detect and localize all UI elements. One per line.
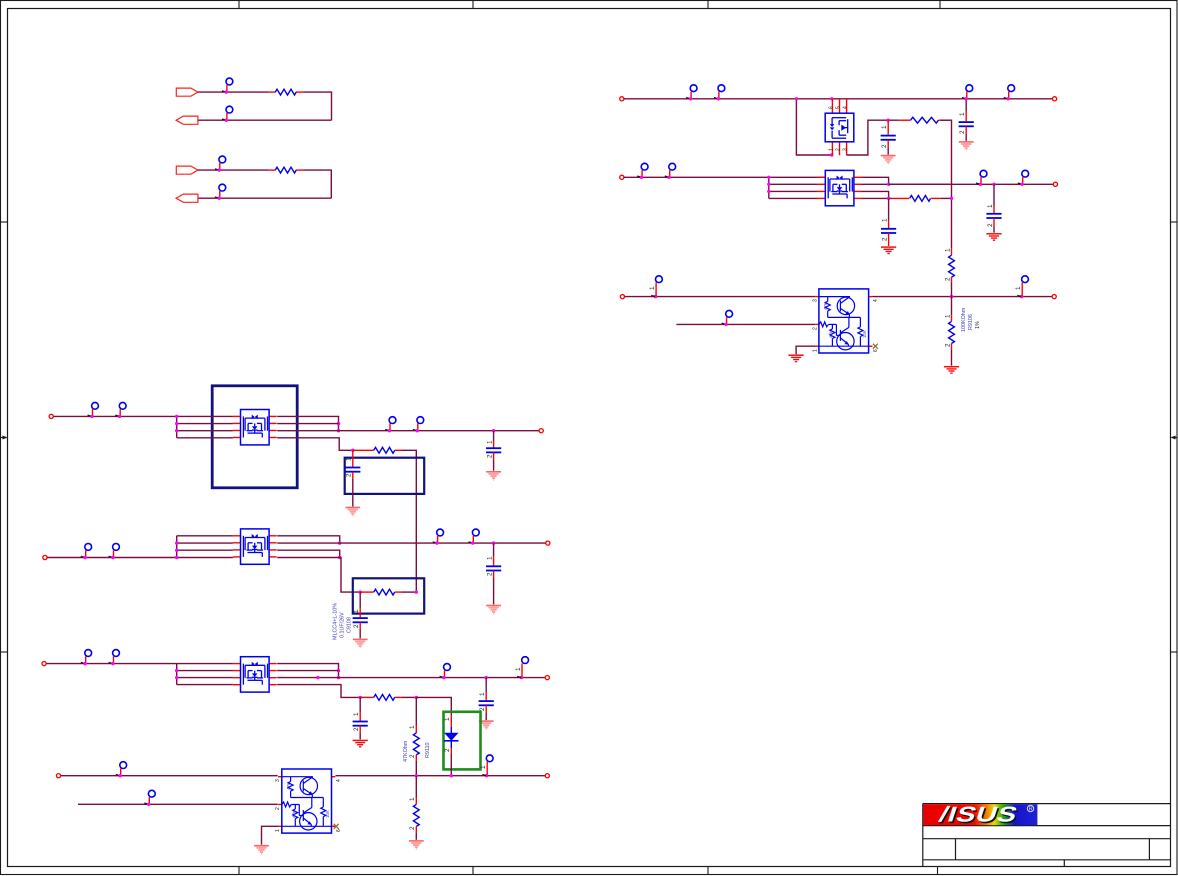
capacitor CC stub 1 — [485, 678, 487, 692]
wire loop2 bottom — [198, 197, 331, 199]
svg-text:6: 6 — [829, 106, 835, 109]
capacitor CC2 — [353, 722, 368, 726]
svg-text:C9108: C9108 — [346, 617, 352, 633]
navy highlight box 2 — [345, 458, 425, 494]
port P5 — [620, 295, 624, 299]
ground (pink) — [881, 156, 896, 164]
mosfet U1 (vertical package) — [825, 99, 854, 155]
svg-text:R9106: R9106 — [968, 314, 974, 330]
test point — [385, 417, 396, 433]
svg-text:3: 3 — [812, 299, 818, 302]
svg-text:1: 1 — [944, 248, 951, 252]
junction column + bus wires — [177, 416, 233, 437]
capacitor CA2 stub 1 — [352, 450, 354, 467]
tick bottom 2 — [472, 867, 474, 875]
svg-text:47K: 47K — [823, 302, 828, 310]
test point — [440, 664, 451, 680]
junction — [316, 676, 319, 679]
test point — [962, 85, 973, 101]
resistor RC — [374, 695, 395, 701]
junction at mosfet top pin — [830, 97, 833, 100]
tick top 2 — [472, 1, 474, 9]
tick bottom 3 — [707, 867, 709, 875]
wire row3-row4 join right — [862, 191, 893, 198]
svg-text:2: 2 — [353, 727, 360, 731]
svg-text:10K: 10K — [862, 330, 867, 338]
capacitor C9108 — [353, 618, 368, 622]
svg-text:2: 2 — [487, 572, 494, 576]
connector arrow out (loop2) — [176, 166, 198, 174]
svg-text:2: 2 — [882, 237, 889, 241]
transistor pair U3 — [815, 289, 873, 353]
wire row2 right — [277, 423, 338, 425]
resistor R9106a stub 2 + wire — [951, 277, 953, 283]
svg-text:3: 3 — [275, 779, 281, 782]
mosfet UC (horizontal package) — [233, 657, 277, 692]
big navy highlight box — [212, 386, 297, 488]
resistor R9110 stub 2 — [415, 755, 417, 761]
svg-text:2: 2 — [409, 826, 416, 830]
mosfet UA (horizontal package) — [233, 410, 277, 445]
connector arrow out (loop1) — [176, 88, 198, 96]
junction gate cap — [359, 696, 362, 699]
resistor RB — [374, 589, 395, 595]
junction column + bus wires — [177, 664, 233, 685]
test point — [109, 544, 120, 560]
resistor R1 — [911, 117, 939, 123]
svg-text:47K: 47K — [291, 810, 296, 818]
test point loop2 bottom — [215, 184, 226, 200]
wire loop1 top — [198, 92, 332, 120]
junction R9110 — [415, 774, 418, 777]
capacitor C4 stub 2 — [993, 218, 995, 227]
gate bus wire to diode branch — [416, 697, 451, 715]
wire base input — [676, 323, 815, 325]
test point — [433, 529, 444, 545]
svg-text:R: R — [1029, 807, 1033, 813]
pin numbers — [812, 299, 879, 352]
diode D9101 stub 1 — [450, 715, 452, 726]
capacitor C3 stub 1 — [888, 198, 890, 220]
wire pin4 output — [872, 296, 1052, 298]
tick right 1 — [1171, 221, 1178, 223]
test point — [144, 790, 155, 806]
svg-text:47K: 47K — [829, 330, 834, 338]
capacitor C1 stub 1 — [887, 120, 889, 134]
ground (pink) — [479, 721, 494, 729]
resistor loop2 — [275, 167, 296, 173]
test point — [88, 402, 99, 418]
wire pin4 output — [336, 775, 546, 777]
svg-text:6: 6 — [336, 829, 342, 832]
junction column + bus wires — [769, 177, 818, 198]
wire row2 output — [277, 542, 545, 544]
svg-text:2: 2 — [346, 473, 353, 477]
junction diode — [450, 774, 453, 777]
capacitor C1 stub 2 — [887, 140, 889, 148]
svg-text:2: 2 — [881, 144, 888, 148]
connector arrow in (loop2) — [176, 194, 198, 202]
junction gate cap — [351, 449, 354, 452]
capacitor C2 stub 1 — [965, 99, 967, 111]
mosfet U2 (horizontal package) — [818, 170, 862, 205]
test point — [976, 170, 987, 186]
test point loop2 top — [215, 156, 226, 172]
capacitor C1 — [881, 136, 896, 140]
wire to gate bus — [941, 197, 952, 199]
wire to gate bus junction — [402, 696, 416, 698]
test point loop1 top — [222, 78, 233, 94]
svg-text:1: 1 — [1015, 286, 1022, 290]
wire row3 input — [625, 296, 816, 298]
svg-text:2: 2 — [812, 327, 818, 330]
test point — [665, 163, 676, 179]
capacitor C9108 stub 2 — [359, 622, 361, 630]
capacitor C9108 stub 1 — [359, 592, 361, 608]
ground (pink) — [345, 508, 360, 516]
capacitor CA — [486, 448, 501, 452]
wire row2 right — [277, 670, 338, 672]
center arrow right — [1171, 436, 1178, 440]
junction gate chain — [950, 295, 953, 298]
svg-text:2: 2 — [987, 223, 994, 227]
svg-text:1: 1 — [444, 717, 451, 721]
tick bottom 1 — [238, 867, 240, 875]
no-connect X on pin6 — [334, 824, 339, 829]
wire row1-row2 join right — [862, 177, 952, 184]
resistor R9110 stub 1 — [415, 697, 417, 725]
capacitor CC stub 2 — [485, 705, 487, 713]
svg-text:1: 1 — [479, 692, 486, 696]
svg-text:1: 1 — [346, 457, 353, 461]
port PC — [42, 662, 46, 666]
resistor RC leads — [360, 696, 374, 698]
resistor R bottom stub 1 — [415, 776, 417, 798]
transistor pair U4 — [278, 769, 336, 833]
resistor loop1 leads — [269, 91, 276, 93]
wire to gate bus (long vertical) — [402, 450, 416, 592]
svg-text:1: 1 — [649, 286, 656, 290]
ground (pink) — [486, 472, 501, 480]
capacitor CA2 — [345, 468, 360, 472]
svg-text:2: 2 — [487, 454, 494, 458]
svg-text:4: 4 — [843, 106, 849, 109]
resistor RA — [374, 447, 395, 453]
wire to gate bus — [402, 591, 416, 593]
capacitor CA stub 2 — [493, 453, 495, 461]
wire rowA input — [53, 415, 233, 417]
tick top 1 — [238, 1, 240, 9]
svg-text:1: 1 — [409, 725, 416, 729]
junction column + bus wires — [177, 536, 233, 558]
wire rowC input (top row) — [46, 663, 233, 665]
junction output cap — [485, 676, 488, 679]
svg-text:6: 6 — [873, 349, 879, 352]
test point — [116, 762, 127, 778]
port P1 — [620, 97, 624, 101]
svg-text:1: 1 — [959, 112, 966, 116]
svg-text:R9110: R9110 — [425, 743, 431, 758]
junction at mosfet bottom pin — [830, 153, 833, 156]
svg-text:1: 1 — [987, 204, 994, 208]
resistor R bottom stub 2 — [415, 826, 417, 832]
svg-text:2: 2 — [444, 748, 451, 752]
test point — [81, 650, 92, 666]
svg-text:2: 2 — [944, 277, 951, 281]
wire loop2 top — [198, 170, 331, 198]
svg-text:1: 1 — [409, 797, 416, 801]
tick left 1 — [1, 221, 8, 223]
svg-text:2: 2 — [275, 807, 281, 810]
label MLCC4+L-10% 0.1UF/26V C9108 — [332, 603, 352, 640]
port PA — [49, 414, 53, 418]
ground (red) — [986, 234, 1001, 240]
port P3 — [620, 175, 624, 179]
svg-text:1%: 1% — [975, 321, 981, 329]
resistor R9106a (upper) — [949, 255, 955, 277]
port PB — [43, 555, 47, 559]
capacitor C3 — [881, 229, 896, 233]
svg-text:1: 1 — [487, 440, 494, 444]
tick top 4 — [939, 1, 941, 9]
resistor loop2 leads — [269, 169, 276, 171]
center arrow left — [1, 436, 8, 440]
port P4 — [1053, 182, 1057, 186]
port P2 — [1053, 97, 1057, 101]
svg-text:1: 1 — [829, 148, 835, 151]
resistor R2 — [910, 196, 931, 202]
svg-text:0.1UF/26V: 0.1UF/26V — [339, 612, 345, 638]
junction gate node — [887, 119, 890, 122]
svg-text:1: 1 — [881, 125, 888, 129]
ASUS logo — [923, 803, 1037, 828]
port PD out — [545, 774, 549, 778]
svg-text:/ISUS: /ISUS — [936, 803, 1021, 826]
wire row1 main — [624, 98, 1052, 100]
test point — [1004, 85, 1015, 101]
mosfet UB (horizontal package) — [233, 529, 277, 564]
navy highlight box 3 — [353, 578, 424, 613]
test point — [637, 163, 648, 179]
ground (red) — [353, 740, 368, 746]
ground (pink) — [486, 606, 501, 614]
wire rows1-2 join right — [277, 536, 340, 543]
wire resistor to gate bus — [941, 120, 952, 249]
internal resistor labels — [823, 302, 867, 338]
test point loop1 bottom — [222, 106, 233, 122]
tick bottom 4 — [937, 867, 939, 875]
capacitor CA stub 1 — [493, 431, 495, 441]
capacitor C4 stub 1 — [993, 184, 995, 206]
capacitor CA2 stub 2 — [352, 472, 354, 479]
internal resistor labels — [286, 782, 330, 818]
capacitor CC2 stub 2 — [359, 726, 361, 734]
junction output cap — [492, 541, 495, 544]
wire row3 output — [277, 677, 545, 679]
wire pin1 to ground — [262, 826, 279, 844]
svg-text:1: 1 — [812, 349, 818, 352]
resistor R1 leads — [899, 119, 911, 121]
svg-text:1: 1 — [944, 314, 951, 318]
test point (tall) — [1015, 276, 1029, 298]
test point (tall) — [649, 276, 663, 298]
pin numbers — [275, 779, 342, 832]
diode D9101 stub 2 — [450, 748, 452, 753]
junction + branch wire down to mosfet bottom — [796, 99, 831, 155]
wire row3 output — [277, 430, 539, 432]
test point — [686, 85, 697, 101]
test point — [468, 529, 479, 545]
no-connect X on pin6 — [873, 344, 878, 349]
tick top 3 — [707, 1, 709, 9]
capacitor CB stub 1 — [493, 543, 495, 556]
wire rowB input (bottom row) — [47, 557, 233, 559]
resistor RB leads — [360, 591, 374, 593]
port P6 — [1052, 295, 1056, 299]
resistor R9106b (lower) — [949, 321, 955, 343]
svg-text:1: 1 — [275, 829, 281, 832]
junction output cap — [965, 97, 968, 100]
resistor R9106a stub — [951, 249, 953, 255]
junction gate cap — [359, 590, 362, 593]
ground (pink) — [959, 142, 974, 150]
resistor R9106b stub 2 + wire to ground — [951, 343, 953, 349]
capacitor C3 stub 2 — [888, 233, 890, 246]
capacitor C4 — [986, 214, 1001, 218]
resistor R9106b stub — [951, 297, 953, 316]
ground (pink) — [254, 846, 269, 854]
green highlight box — [444, 712, 481, 770]
wire row4 to gate resistor — [277, 438, 353, 451]
capacitor C2 stub 2 — [965, 126, 967, 134]
test point — [1018, 170, 1029, 186]
wire input — [61, 775, 278, 777]
wire base input — [78, 803, 278, 805]
wire from mosfet bottom to gate resistor node — [847, 120, 899, 155]
resistor loop1 — [275, 89, 296, 95]
port PC out — [545, 676, 549, 680]
test point — [81, 544, 92, 560]
connector arrow in (loop1) — [176, 116, 198, 124]
test point — [115, 402, 126, 418]
ground (pink-red) — [409, 841, 424, 849]
test point (tall) — [480, 755, 493, 778]
wire pin1 to ground — [796, 346, 815, 354]
svg-text:2: 2 — [353, 624, 360, 628]
tick right 2 — [1171, 651, 1178, 653]
ground (red) — [944, 367, 959, 373]
svg-text:10K: 10K — [325, 810, 330, 818]
junction output cap — [492, 429, 495, 432]
test point — [722, 310, 733, 326]
pin numbers 6 5 4 — [829, 106, 849, 151]
capacitor C2 — [959, 122, 974, 126]
capacitor CB stub 2 — [493, 571, 495, 578]
wire rows3-4 join right — [277, 550, 340, 557]
title block lines — [923, 804, 1171, 867]
wire rows1-2 join right — [277, 664, 338, 678]
svg-text:100KOhm: 100KOhm — [961, 307, 967, 332]
wire row4 to gate resistor — [277, 558, 360, 593]
svg-text:MLCC4+L-10%: MLCC4+L-10% — [332, 603, 338, 640]
svg-text:1: 1 — [487, 556, 494, 560]
svg-text:47KOhm: 47KOhm — [403, 740, 409, 762]
svg-text:2: 2 — [479, 707, 486, 711]
svg-text:4: 4 — [336, 779, 342, 782]
wire row2 input — [624, 176, 825, 178]
wire row4 to gate resistor — [277, 685, 360, 698]
port PB out — [546, 541, 550, 545]
port PA out — [539, 429, 543, 433]
diode D9101 — [444, 727, 458, 749]
svg-text:5: 5 — [836, 106, 842, 109]
svg-text:4: 4 — [873, 299, 879, 302]
svg-text:1: 1 — [480, 765, 487, 769]
wire row2 output — [889, 183, 1054, 185]
svg-text:2: 2 — [944, 343, 951, 347]
svg-text:2: 2 — [959, 130, 966, 134]
svg-text:1: 1 — [353, 609, 360, 613]
test point — [109, 650, 120, 666]
svg-text:2: 2 — [836, 148, 842, 151]
svg-text:1: 1 — [515, 667, 522, 671]
label 47KOhm R9110 — [403, 740, 431, 762]
wire loop1 bottom — [198, 119, 332, 121]
svg-text:1: 1 — [882, 218, 889, 222]
test point — [714, 85, 725, 101]
resistor RA leads — [353, 449, 374, 451]
ground (pink) — [353, 639, 368, 647]
junction output cap — [992, 183, 995, 186]
svg-text:3: 3 — [843, 148, 849, 151]
svg-text:47K: 47K — [286, 782, 291, 790]
test point — [413, 417, 424, 433]
port PD — [56, 774, 60, 778]
capacitor CC2 stub 1 — [359, 697, 361, 712]
ground (red) — [789, 355, 804, 361]
wire rows1-2 join right — [277, 416, 338, 430]
svg-text:1: 1 — [353, 712, 360, 716]
svg-text:2: 2 — [409, 754, 416, 758]
ground (red) — [881, 247, 896, 253]
capacitor CC — [479, 701, 494, 705]
resistor R2 leads — [893, 197, 909, 199]
label 100KOhm R9106 1% — [961, 307, 981, 332]
test point (tall) — [515, 657, 529, 680]
tick left 2 — [1, 651, 8, 653]
capacitor CB — [486, 566, 501, 570]
resistor R bottom — [413, 804, 419, 826]
resistor R9110 — [413, 733, 419, 755]
